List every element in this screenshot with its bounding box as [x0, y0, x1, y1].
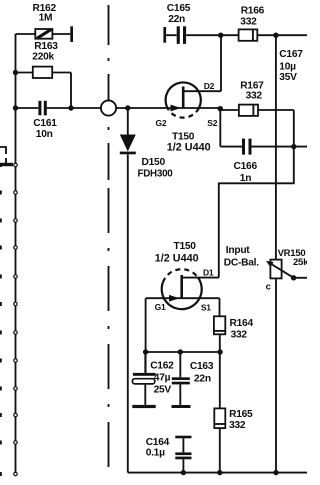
pin circles on left bus	[14, 163, 18, 476]
left bus wire	[15, 34, 17, 474]
resistor R166	[221, 5, 276, 40]
wire to right edge top	[276, 34, 307, 36]
svg-text:C165: C165	[167, 3, 191, 14]
capacitor C164	[146, 436, 192, 473]
svg-text:10µ: 10µ	[279, 62, 296, 73]
node dot G1/C162	[143, 349, 148, 354]
wire bottom rail	[128, 472, 307, 474]
svg-text:22n: 22n	[194, 373, 211, 384]
shield corner bracket top-left	[0, 147, 6, 164]
node dot C165/R166/drain	[218, 33, 223, 38]
svg-text:C162: C162	[150, 360, 174, 371]
svg-text:R165: R165	[229, 409, 253, 420]
capacitor C163	[172, 352, 214, 408]
capacitor C166	[220, 139, 307, 184]
svg-text:1n: 1n	[240, 173, 251, 184]
svg-text:35V: 35V	[279, 72, 297, 83]
transistor T150 upper half (JFET)	[156, 81, 222, 153]
transistor T150 lower half (JFET)	[146, 241, 220, 313]
svg-text:1M: 1M	[39, 13, 53, 24]
svg-text:S2: S2	[207, 118, 217, 128]
capacitor C161	[16, 101, 101, 140]
svg-text:C163: C163	[190, 361, 214, 372]
left edge stubs	[0, 163, 2, 476]
potentiometer VR150	[266, 248, 309, 292]
svg-text:R166: R166	[241, 5, 265, 16]
wire S2 down to C166	[219, 109, 221, 147]
capacitor C167 labels	[279, 49, 303, 83]
svg-text:G2: G2	[156, 118, 167, 128]
svg-text:332: 332	[229, 420, 246, 431]
node dot R165 bottom	[217, 470, 222, 475]
svg-text:C166: C166	[234, 161, 258, 172]
svg-text:C161: C161	[33, 118, 57, 129]
capacitor C162 (electrolytic)	[132, 352, 174, 408]
wire source rail	[146, 351, 221, 353]
feedthrough circle on shield	[101, 100, 116, 115]
svg-text:22n: 22n	[168, 14, 185, 25]
input DC balance labels	[224, 245, 259, 268]
capacitor C165	[163, 3, 220, 44]
wire S2 to gate line	[183, 107, 220, 109]
svg-text:Input: Input	[226, 245, 250, 256]
svg-text:332: 332	[231, 330, 248, 341]
shield chain line (center dash-dot)	[108, 0, 110, 476]
node dot R166 right	[273, 33, 278, 38]
wire drain riser	[220, 35, 222, 91]
wire gate feed	[116, 107, 183, 109]
wire right rail lower	[275, 278, 277, 472]
node dot R164/R165	[217, 349, 222, 354]
node dot R163 bottom	[68, 105, 73, 110]
thick stub wire to first pin	[0, 163, 13, 166]
resistor R165	[214, 408, 253, 472]
svg-text:R164: R164	[230, 318, 254, 329]
svg-text:1/2 U440: 1/2 U440	[155, 253, 199, 265]
svg-text:D150: D150	[142, 157, 166, 168]
svg-text:332: 332	[240, 16, 257, 27]
svg-text:DC-Bal.: DC-Bal.	[224, 257, 259, 268]
node dot VR150 wiper	[291, 275, 296, 280]
node dot C164 bottom	[181, 470, 186, 475]
node dot C163 top	[178, 349, 183, 354]
svg-text:S1: S1	[201, 303, 211, 313]
node dot C166 right	[291, 144, 296, 149]
svg-text:R163: R163	[34, 41, 58, 52]
svg-text:D1: D1	[203, 267, 214, 277]
svg-text:220k: 220k	[32, 52, 54, 63]
svg-text:10n: 10n	[36, 129, 53, 140]
svg-text:G1: G1	[155, 302, 166, 312]
svg-text:25V: 25V	[154, 384, 172, 395]
svg-text:0.1µ: 0.1µ	[146, 447, 165, 458]
node dot diode tap	[125, 105, 130, 110]
svg-text:c: c	[266, 282, 271, 293]
svg-text:C167: C167	[279, 49, 303, 60]
svg-text:1/2 U440: 1/2 U440	[167, 141, 211, 153]
resistor R162 (adjustable)	[16, 3, 74, 42]
svg-text:332: 332	[246, 90, 263, 101]
wire right rail upper	[275, 35, 277, 259]
resistor R164	[214, 298, 254, 408]
node dot R163 tap	[13, 70, 18, 75]
node dot C161 left	[13, 105, 18, 110]
svg-text:FDH300: FDH300	[138, 169, 174, 180]
wire C166 junction to drain D1	[219, 147, 294, 278]
node dot VR150 rail	[273, 470, 278, 475]
svg-text:D2: D2	[204, 81, 215, 91]
svg-text:47µ: 47µ	[154, 373, 171, 384]
resistor R163	[16, 41, 72, 108]
node dot S2 junction	[218, 106, 223, 111]
svg-text:25k: 25k	[293, 257, 307, 268]
resistor R167	[220, 80, 293, 146]
wire G1 drop	[145, 298, 147, 373]
svg-text:T150: T150	[174, 241, 197, 252]
diode D150	[120, 108, 173, 473]
